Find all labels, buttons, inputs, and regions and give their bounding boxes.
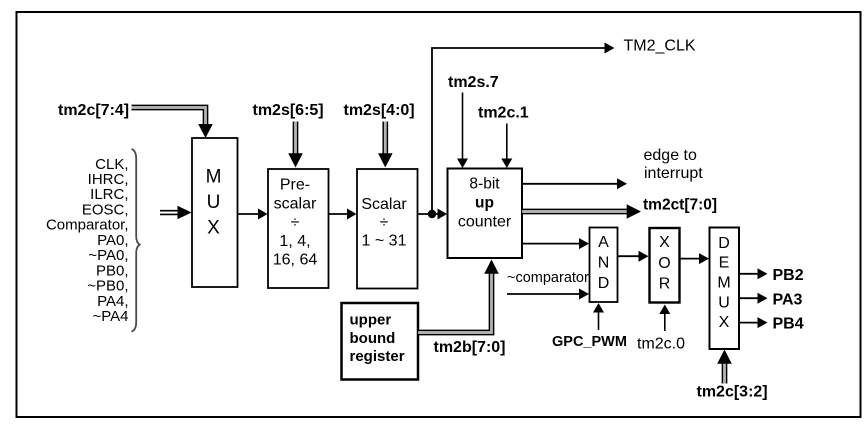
wire counter to AND	[522, 238, 589, 249]
wire tm2s.7	[457, 93, 468, 169]
wire TM2_CLK	[432, 43, 615, 215]
svg-text:16, 64: 16, 64	[273, 252, 318, 269]
wire tm2c.1	[501, 124, 512, 169]
svg-text:M: M	[717, 275, 730, 292]
svg-text:N: N	[598, 255, 610, 272]
svg-text:TM2_CLK: TM2_CLK	[624, 38, 696, 55]
wire XOR to DEMUX	[680, 253, 710, 264]
svg-text:up: up	[475, 195, 494, 212]
label tm2c.0	[637, 336, 685, 353]
block XOR	[650, 228, 680, 303]
svg-text:U: U	[718, 294, 730, 311]
label tm2c[3:2]	[697, 384, 768, 401]
svg-text:1, 4,: 1, 4,	[279, 233, 310, 250]
svg-text:upper: upper	[350, 312, 392, 329]
label tm2b[7:0]	[434, 339, 506, 356]
svg-text:GPC_PWM: GPC_PWM	[552, 334, 627, 350]
svg-text:~PA4: ~PA4	[93, 308, 129, 325]
svg-text:U: U	[207, 192, 221, 213]
wire Pre-scalar to Scalar	[329, 209, 357, 220]
svg-text:D: D	[598, 275, 610, 292]
wire GPC_PWM	[593, 303, 604, 330]
svg-text:Scalar: Scalar	[361, 196, 407, 213]
label PB2	[773, 267, 804, 284]
svg-text:counter: counter	[458, 214, 512, 231]
label PA3	[773, 291, 803, 308]
block Scalar	[357, 169, 418, 289]
svg-text:÷: ÷	[380, 214, 389, 231]
svg-text:~comparator: ~comparator	[507, 270, 589, 286]
wire tm2c.0	[659, 305, 670, 332]
block 8-bit up counter	[448, 169, 523, 259]
svg-text:8-bit: 8-bit	[469, 176, 500, 193]
svg-text:÷: ÷	[291, 214, 300, 231]
svg-text:tm2b[7:0]: tm2b[7:0]	[434, 339, 506, 356]
svg-text:tm2s.7: tm2s.7	[448, 74, 499, 91]
label ~comparator	[507, 270, 589, 286]
wire PB4	[740, 317, 768, 328]
bus tm2ct[7:0]	[522, 204, 641, 219]
svg-text:tm2c.1: tm2c.1	[478, 105, 529, 122]
svg-text:edge to: edge to	[644, 147, 697, 164]
svg-text:E: E	[719, 255, 730, 272]
wire edge to interrupt	[522, 178, 627, 189]
label GPC_PWM	[552, 334, 627, 350]
label tm2c[7:4]	[58, 102, 129, 119]
block DEMUX	[710, 228, 740, 350]
svg-text:PB4: PB4	[773, 316, 804, 333]
block upper bound register	[342, 303, 419, 380]
bus tm2c[7:4]	[132, 105, 213, 138]
wire MUX to Pre-scalar	[238, 209, 268, 220]
svg-text:M: M	[206, 167, 222, 188]
bus tm2c[3:2]	[717, 350, 732, 384]
svg-text:X: X	[659, 234, 670, 251]
svg-text:bound: bound	[350, 330, 396, 347]
wire PB2	[740, 268, 768, 279]
svg-text:D: D	[718, 235, 730, 252]
bus arrow into MUX	[160, 206, 192, 220]
svg-text:R: R	[659, 276, 671, 293]
svg-text:tm2ct[7:0]: tm2ct[7:0]	[643, 197, 717, 214]
wire AND to XOR	[618, 251, 649, 262]
svg-text:tm2c[7:4]: tm2c[7:4]	[58, 102, 129, 119]
bus tm2b[7:0]	[418, 260, 499, 335]
wire PA3	[740, 293, 768, 304]
block MUX	[192, 138, 238, 287]
block Pre-scalar	[268, 169, 329, 288]
label PB4	[773, 316, 804, 333]
label tm2ct[7:0]	[643, 197, 717, 214]
wire ~comparator	[507, 289, 589, 300]
svg-text:A: A	[598, 234, 609, 251]
svg-text:1 ~ 31: 1 ~ 31	[362, 233, 407, 250]
svg-text:tm2c.0: tm2c.0	[637, 336, 685, 353]
label tm2s[6:5]	[253, 102, 324, 119]
svg-text:Pre-: Pre-	[280, 177, 310, 194]
label tm2s[4:0]	[344, 102, 415, 119]
label edge to interrupt	[644, 147, 704, 182]
bus tm2s[4:0]	[378, 122, 393, 168]
label TM2_CLK	[624, 38, 696, 55]
svg-text:X: X	[207, 218, 220, 239]
svg-text:tm2s[6:5]: tm2s[6:5]	[253, 102, 324, 119]
block AND	[590, 228, 618, 303]
label tm2c.1	[478, 105, 529, 122]
svg-text:PA3: PA3	[773, 291, 803, 308]
svg-text:tm2s[4:0]: tm2s[4:0]	[344, 102, 415, 119]
svg-text:PB2: PB2	[773, 267, 804, 284]
svg-text:tm2c[3:2]: tm2c[3:2]	[697, 384, 768, 401]
clock source list	[46, 156, 129, 325]
svg-text:interrupt: interrupt	[644, 165, 703, 182]
junction dot	[428, 210, 436, 218]
svg-text:register: register	[350, 348, 405, 365]
bus tm2s[6:5]	[288, 122, 303, 168]
wire Scalar to counter	[418, 209, 448, 220]
label tm2s.7	[448, 74, 499, 91]
brace	[132, 149, 140, 332]
svg-text:X: X	[719, 314, 730, 331]
svg-text:scalar: scalar	[274, 195, 317, 212]
svg-text:O: O	[658, 255, 670, 272]
